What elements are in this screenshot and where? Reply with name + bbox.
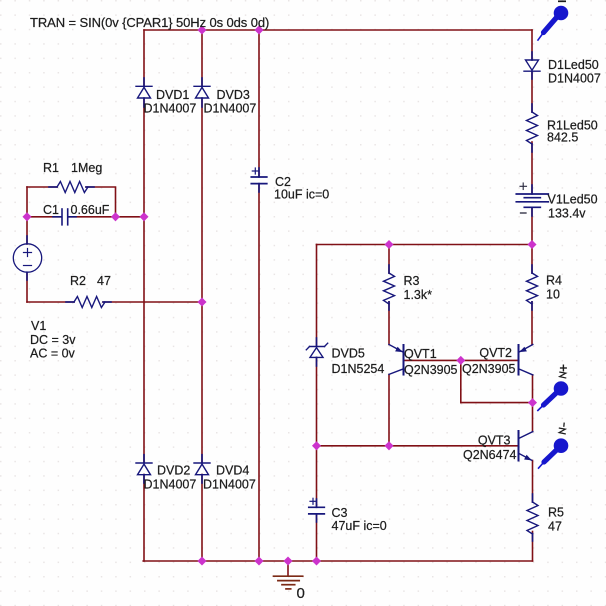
wire DVD3 branch middle (201, 99, 203, 463)
wire R3 branch lower (388, 302, 390, 345)
junction bottom rail DVD4 (197, 556, 206, 565)
svg-text:DVD2: DVD2 (157, 464, 190, 478)
voltage probe marker top (538, 1, 569, 40)
wire DVD5 branch lower (316, 358, 318, 446)
wire V1Led50 to node (531, 208, 533, 245)
junction C1 row left (22, 212, 31, 221)
diode DVD1 (136, 86, 152, 98)
junction bottom rail C2 (254, 556, 263, 565)
wire R5 to bottom rail (532, 532, 534, 562)
wire C3 branch upper (316, 446, 318, 507)
transistor QVT2 (519, 345, 533, 375)
wire left column upper (26, 187, 28, 244)
svg-text:DVD1: DVD1 (156, 88, 189, 102)
svg-text:D1N5254: D1N5254 (332, 362, 385, 376)
junction C1 row DVD1 (139, 212, 148, 221)
svg-text:R4: R4 (546, 274, 562, 288)
SECTION: probes (537, 1, 568, 468)
svg-text:C1: C1 (43, 203, 59, 217)
diode D1Led50 (524, 60, 540, 71)
svg-text:Q2N3905: Q2N3905 (404, 363, 458, 377)
wire R3 branch upper (388, 245, 390, 274)
junction bottom rail ground (283, 556, 292, 565)
svg-text:DVD4: DVD4 (216, 464, 249, 478)
pin stubs (27, 52, 533, 541)
resistor R4 (527, 273, 538, 304)
wire DVD3 branch upper (201, 30, 203, 86)
wire D1Led50 to R1Led50 (531, 72, 533, 112)
svg-text:10uF ic=0: 10uF ic=0 (274, 188, 329, 202)
svg-text:R1: R1 (43, 161, 59, 175)
resistor R3 (384, 273, 395, 304)
svg-text:0: 0 (297, 585, 305, 602)
diode DVD2 (136, 463, 152, 475)
battery V1Led50 (516, 183, 548, 213)
diode DVD4 (194, 463, 210, 475)
capacitor C3 polarized (309, 498, 325, 514)
wire ground stub (287, 561, 289, 576)
svg-text:V1: V1 (31, 319, 46, 333)
wire C1 row left (27, 216, 62, 218)
wire QVT3 emitter to R5 (532, 461, 534, 503)
voltage source V1 circle (13, 244, 41, 272)
wire DVD5 branch upper (316, 245, 318, 347)
wire DVD1 branch upper (143, 30, 145, 86)
junction C1 row R1 (111, 212, 120, 221)
svg-text:Q2N6474: Q2N6474 (463, 448, 517, 462)
junction bottom rail C3 (312, 556, 321, 565)
svg-text:AC = 0v: AC = 0v (30, 347, 76, 361)
junction mid rail R3 (384, 240, 393, 249)
svg-text:D1Led50: D1Led50 (548, 58, 599, 72)
transistor QVT1 (389, 345, 404, 375)
svg-text:Q2N3905: Q2N3905 (462, 362, 516, 376)
junction base bus (456, 356, 465, 365)
wire DVD1 branch middle (143, 99, 145, 463)
svg-text:QVT2: QVT2 (479, 346, 512, 360)
junction top rail C2 (254, 25, 263, 34)
wire QVT1 collector column (388, 375, 390, 446)
svg-text:DVD5: DVD5 (332, 347, 365, 361)
wire top rail (144, 29, 532, 31)
wire node to QVT3 collector (532, 403, 534, 432)
wire DVD1 branch lower (143, 475, 145, 562)
junction collectors node (528, 398, 537, 407)
svg-text:47: 47 (548, 520, 562, 534)
svg-text:842.5: 842.5 (547, 131, 578, 145)
svg-text:D1N4007: D1N4007 (548, 72, 601, 86)
wire C3 branch lower (316, 514, 318, 561)
diode DVD3 (194, 86, 210, 98)
wire R4 branch upper (531, 245, 533, 274)
ground symbol 0 (274, 576, 303, 589)
resistor R5 (527, 502, 538, 534)
svg-text:V1Led50: V1Led50 (548, 193, 598, 207)
svg-text:R5: R5 (548, 506, 564, 520)
wire C2 branch lower (258, 184, 260, 561)
svg-text:C3: C3 (332, 506, 348, 520)
svg-text:133.4v: 133.4v (548, 207, 586, 221)
junction R2 row DVD3 (197, 297, 206, 306)
wire C1 row right (68, 216, 144, 218)
svg-text:10: 10 (546, 288, 560, 302)
svg-text:DVD3: DVD3 (217, 88, 250, 102)
SECTION: dots (22, 25, 537, 565)
svg-text:0.66uF: 0.66uF (71, 203, 110, 217)
wire R1 loop top (27, 186, 57, 188)
svg-text:DC = 3v: DC = 3v (30, 333, 76, 347)
svg-text:R2: R2 (70, 274, 86, 288)
zener diode DVD5 (306, 343, 327, 357)
wire R2 row left (27, 301, 74, 303)
SECTION: wires (27, 30, 533, 576)
capacitor C1 (62, 209, 68, 225)
svg-text:D1N4007: D1N4007 (144, 102, 197, 116)
wire left column lower (26, 272, 28, 302)
junction top rail DVD3 (197, 25, 206, 34)
svg-text:47uF ic=0: 47uF ic=0 (332, 519, 387, 533)
svg-text:TRAN = SIN(0v {CPAR1} 50Hz 0s: TRAN = SIN(0v {CPAR1} 50Hz 0s 0ds 0d) (30, 15, 269, 30)
wire R1Led50 to V1Led50 (531, 142, 533, 194)
junction mid rail right (527, 240, 536, 249)
wire C2 branch upper (258, 30, 260, 177)
svg-text:1Meg: 1Meg (71, 161, 102, 175)
junction QVT3 base row left (312, 441, 321, 450)
svg-text:QVT1: QVT1 (404, 347, 437, 361)
wire R4 branch lower (531, 302, 533, 345)
junction QVT3 base row mid (384, 441, 393, 450)
voltage probe marker V+ (537, 365, 568, 412)
wire base bus QVT1-QVT2 (404, 359, 519, 361)
svg-text:1.3k*: 1.3k* (404, 288, 433, 302)
svg-text:R3: R3 (404, 274, 420, 288)
wire QVT2 collector drop (532, 375, 534, 403)
wire right rail corner (531, 30, 533, 60)
wire bottom rail (143, 560, 532, 562)
voltage probe marker V- (538, 423, 568, 469)
transistor QVT3 (519, 431, 533, 461)
wire base stub across (461, 402, 533, 404)
resistor R1 (57, 182, 88, 193)
wire mid rail y245 (317, 244, 533, 246)
svg-text:QVT3: QVT3 (478, 434, 511, 448)
wire R2 row right (103, 301, 202, 303)
SECTION: symbols (13, 52, 548, 589)
capacitor C2 polarized (251, 168, 266, 184)
svg-text:D1N4007: D1N4007 (203, 478, 256, 492)
wire QVT3 base row (317, 445, 519, 447)
wire R1 loop right (86, 187, 116, 217)
resistor R1Led50 (527, 112, 538, 144)
resistor R2 (74, 297, 105, 308)
svg-text:47: 47 (97, 274, 111, 288)
wire base stub down (460, 360, 462, 402)
wire DVD3 branch lower (201, 475, 203, 562)
svg-text:D1N4007: D1N4007 (204, 102, 257, 116)
svg-text:D1N4007: D1N4007 (144, 478, 197, 492)
